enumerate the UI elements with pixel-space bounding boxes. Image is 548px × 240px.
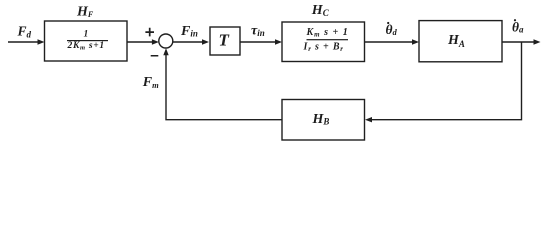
svg-text:T: T xyxy=(219,31,230,50)
svg-text:HB: HB xyxy=(312,112,330,127)
summing junction circle xyxy=(159,34,173,48)
arrowhead into H_B xyxy=(365,117,372,122)
label plus sign xyxy=(145,28,154,37)
wire feedback tap down and across xyxy=(369,42,522,120)
block H_F box xyxy=(45,21,128,61)
label minus sign xyxy=(151,55,159,57)
arrowhead into junction xyxy=(152,39,159,44)
svg-text:HF: HF xyxy=(76,4,94,19)
svg-text:Fd: Fd xyxy=(17,23,32,39)
block H_C box xyxy=(282,22,365,62)
wire H_F to summing junction xyxy=(127,41,155,43)
svg-text:Km s + 1: Km s + 1 xyxy=(306,27,349,39)
arrowhead into H_C xyxy=(275,39,282,44)
fraction bar in H_C xyxy=(307,39,349,40)
svg-text:HA: HA xyxy=(447,33,465,49)
svg-text:Ir s + Br: Ir s + Br xyxy=(303,41,344,53)
arrowhead into H_A xyxy=(412,39,419,44)
wire input Fd xyxy=(8,41,41,43)
arrowhead input xyxy=(38,39,45,44)
svg-text:HC: HC xyxy=(311,3,330,18)
wire junction to T xyxy=(173,41,206,43)
fraction bar in H_F xyxy=(67,40,108,41)
wire T to H_C xyxy=(240,41,279,43)
dot above theta_a xyxy=(514,19,516,21)
svg-text:2Km s+1: 2Km s+1 xyxy=(67,41,105,52)
svg-text:θd: θd xyxy=(386,22,398,37)
wire H_C to H_A xyxy=(365,41,417,43)
arrowhead into T xyxy=(202,39,209,44)
svg-text:θa: θa xyxy=(512,20,524,35)
wire H_B to left and up to junction xyxy=(166,52,282,120)
block H_B box xyxy=(282,100,365,141)
arrowhead into junction bottom xyxy=(163,48,168,55)
dot above theta_d xyxy=(387,22,389,24)
arrowhead output xyxy=(534,39,541,44)
svg-text:Fin: Fin xyxy=(180,24,198,39)
svg-text:1: 1 xyxy=(84,30,89,40)
block H_A box xyxy=(419,21,502,62)
svg-text:Fm: Fm xyxy=(142,75,159,90)
block T box xyxy=(210,27,240,55)
wire output xyxy=(502,41,538,43)
svg-text:τin: τin xyxy=(251,24,265,39)
